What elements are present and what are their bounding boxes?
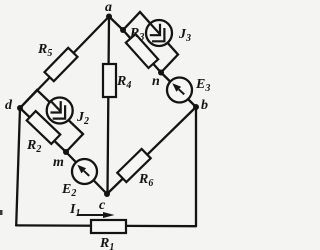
svg-text:c: c: [99, 198, 106, 213]
svg-text:R6: R6: [138, 172, 153, 189]
node a: [105, 0, 112, 20]
resistor R1: [91, 220, 126, 250]
wire n-b: [161, 73, 196, 108]
wire c-b: [107, 107, 196, 194]
svg-text:E3: E3: [195, 77, 210, 94]
svg-text:a: a: [105, 0, 112, 15]
current source J2: [47, 98, 89, 128]
wire m-c: [66, 152, 107, 194]
svg-text:R5: R5: [37, 42, 52, 59]
svg-text:E2: E2: [61, 182, 76, 199]
node b: [193, 98, 208, 113]
wire a to junction: [109, 17, 123, 31]
resistor R6: [117, 149, 153, 189]
node m: [53, 149, 69, 170]
source E3: [167, 77, 210, 103]
svg-text:n: n: [152, 74, 160, 89]
svg-text:R3: R3: [129, 26, 144, 43]
svg-text:b: b: [201, 98, 208, 113]
wire J2 detour loop: [20, 90, 83, 152]
svg-text:I1: I1: [69, 202, 80, 219]
wire junction-n (R3 axis): [123, 30, 161, 73]
resistor R3: [126, 26, 158, 68]
svg-text:R2: R2: [26, 138, 41, 155]
node junction at R3/J3 split: [120, 27, 126, 33]
wire J3 detour loop: [123, 12, 178, 73]
node n: [152, 70, 164, 90]
current source J3: [146, 20, 191, 46]
current I1 arrow: [69, 202, 115, 219]
resistor R5: [37, 42, 78, 81]
svg-text:R4: R4: [116, 74, 131, 91]
wire d-a: [20, 17, 109, 109]
wire left edge d down: [16, 108, 20, 225]
wire d-m (R2 axis): [20, 108, 66, 152]
wire bottom rail: [16, 224, 196, 227]
node c: [99, 191, 110, 213]
svg-text:J3: J3: [178, 27, 191, 44]
resistor R2: [26, 111, 60, 155]
node d: [5, 98, 23, 113]
source E2: [61, 159, 97, 199]
svg-text:m: m: [53, 155, 64, 170]
wire a-c: [108, 17, 110, 195]
wire right edge up to b: [195, 107, 197, 226]
resistor R4: [103, 64, 131, 97]
svg-text:J2: J2: [76, 110, 89, 127]
svg-text:d: d: [5, 98, 13, 113]
svg-text:R1: R1: [99, 236, 114, 250]
